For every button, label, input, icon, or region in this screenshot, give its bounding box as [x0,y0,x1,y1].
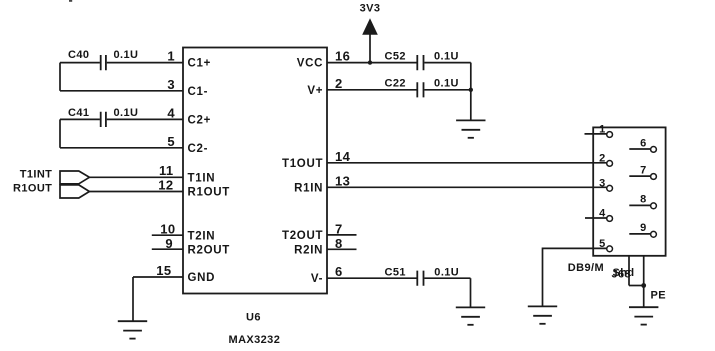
wire pin16 right segment [424,62,471,64]
svg-text:T1INT: T1INT [20,168,53,180]
svg-text:R2IN: R2IN [294,245,323,257]
svg-text:T2IN: T2IN [188,230,216,242]
svg-text:9: 9 [640,222,646,234]
svg-text:3: 3 [167,77,175,92]
junction dot shield/PE [641,283,646,288]
wire pin6 left segment [327,277,417,279]
IC right pin labels [282,58,323,286]
svg-text:T1IN: T1IN [188,172,216,184]
wire pin2 left segment [327,89,417,91]
wire vertical C40 loop [59,63,61,91]
junction dot VCC/3V3 [368,60,372,64]
junction dot C22 [469,88,473,92]
svg-text:U6: U6 [246,312,261,324]
capacitor C52 [385,50,459,70]
wire vertical C41 loop [59,119,61,147]
svg-text:V+: V+ [307,85,323,97]
svg-text:MAX3232: MAX3232 [229,334,281,346]
DB9 pin 9 stub [629,233,650,235]
svg-text:C41: C41 [68,107,89,119]
wire shield bridge [629,285,644,287]
svg-text:8: 8 [335,236,343,251]
svg-text:C52: C52 [385,50,406,62]
svg-text:R1IN: R1IN [294,182,323,194]
capacitor C51 [385,266,460,285]
svg-text:C51: C51 [385,266,406,278]
port flag T1INT [60,171,89,184]
ground top right [456,120,485,137]
svg-text:GND: GND [188,272,216,284]
svg-text:C2+: C2+ [188,114,212,126]
svg-text:8: 8 [640,194,646,206]
svg-text:6: 6 [640,137,646,149]
svg-text:0.1U: 0.1U [114,49,139,61]
svg-text:1: 1 [599,123,605,135]
wire pin1 right segment [107,62,183,64]
DB9 pin 7 stub [629,175,650,177]
svg-text:4: 4 [167,105,175,120]
stray mark top edge [69,0,72,2]
wire pin14 to DB9 pin2 [327,162,606,164]
capacitor C40 [68,49,138,70]
port flag R1OUT [60,185,89,198]
svg-text:12: 12 [158,178,173,193]
svg-text:T2OUT: T2OUT [282,230,323,242]
svg-text:6: 6 [335,264,343,279]
svg-text:C1-: C1- [188,86,209,98]
wire pin3 [60,90,183,92]
svg-text:11: 11 [159,163,174,178]
wire pin8 stub [327,248,357,250]
wire GND drop [132,277,134,321]
wire pin11 [89,176,183,178]
svg-text:Shd: Shd [613,267,635,279]
svg-text:C22: C22 [385,77,406,89]
wire pin15 GND [133,276,183,278]
wire pin7 stub [327,234,357,236]
svg-text:3V3: 3V3 [360,2,381,14]
capacitor C41 [68,107,138,127]
svg-text:C40: C40 [68,49,89,61]
wire pin1 left segment [60,62,100,64]
wire pin4 left segment [60,118,100,120]
svg-text:1: 1 [167,49,175,64]
svg-text:T1OUT: T1OUT [282,158,323,170]
DB9 shield stub right [643,256,645,286]
DB9 pin 1 stub [585,133,607,135]
svg-text:13: 13 [335,173,350,188]
svg-text:0.1U: 0.1U [114,107,139,119]
svg-text:PE: PE [651,289,666,301]
wire DB9 pin5 to ground [543,248,607,306]
svg-text:2: 2 [599,153,605,165]
svg-text:10: 10 [160,222,175,237]
ground PE [629,307,658,324]
wire pin16 left segment [327,62,417,64]
ground under GND pin [118,321,147,338]
svg-text:14: 14 [335,149,351,164]
svg-text:15: 15 [156,263,171,278]
wire pin2 right segment [424,89,471,91]
wire pin4 right segment [107,118,183,120]
svg-text:VCC: VCC [297,58,323,70]
op-amp U6 box (MAX3232 IC body) [183,48,327,294]
DB9 shield stub left [628,256,630,286]
svg-text:3: 3 [599,177,605,189]
DB9 pin 6 stub [629,148,650,150]
svg-text:R2OUT: R2OUT [188,244,230,256]
wire pin12 [89,191,183,193]
DB9 pin 8 stub [629,204,650,206]
wire pin13 to DB9 pin3 [327,186,606,188]
svg-text:5: 5 [167,134,175,149]
wire pin6 right segment [424,277,470,279]
wire PE drop [643,286,645,308]
svg-text:DB9/M: DB9/M [568,262,604,274]
capacitor C22 [385,77,459,97]
svg-text:4: 4 [599,208,606,220]
svg-text:16: 16 [335,49,350,64]
wire C51 drop [470,278,472,307]
svg-text:2: 2 [335,76,343,91]
IC left pin labels [188,58,230,284]
svg-text:R1OUT: R1OUT [13,183,52,195]
overlapped shield designator text [612,267,635,281]
wire pin10 stub [152,234,183,236]
svg-text:7: 7 [335,221,343,236]
ground under C51 [456,307,485,324]
svg-text:0.1U: 0.1U [434,50,459,62]
svg-text:R1OUT: R1OUT [188,187,230,199]
svg-text:0.1U: 0.1U [434,266,459,278]
wire vertical caps to ground [470,63,472,121]
power symbol 3V3 [360,2,381,62]
svg-text:7: 7 [640,164,646,176]
wire pin5 [60,147,183,149]
ground under DB9 pin5 [528,306,557,323]
svg-text:C2-: C2- [188,143,209,155]
wire pin9 stub [152,248,183,250]
svg-text:9: 9 [165,236,173,251]
DB9 pin 4 stub [585,217,607,219]
connector DB9/M box [593,127,665,255]
svg-text:0.1U: 0.1U [434,77,459,89]
svg-text:C1+: C1+ [188,58,212,70]
svg-text:V-: V- [311,273,323,285]
